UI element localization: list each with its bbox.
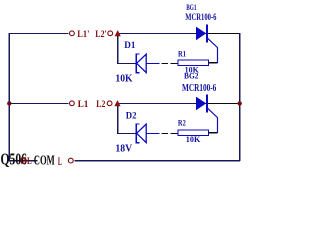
resistor R2 bbox=[178, 130, 209, 136]
terminal circle L2' bbox=[108, 31, 113, 36]
svg-text:MCR100-6: MCR100-6 bbox=[182, 82, 217, 94]
svg-text:L2: L2 bbox=[96, 98, 105, 109]
wire dashed segment D2 to R2 bbox=[162, 132, 179, 134]
wire dashed segment D1 to R1 bbox=[162, 62, 179, 64]
zener diode D2 bbox=[136, 124, 159, 143]
wire R1 to gate bbox=[209, 62, 218, 64]
svg-text:10K: 10K bbox=[115, 73, 132, 84]
arrow at L2' node bbox=[115, 30, 121, 36]
wire drop to D2 bbox=[118, 106, 136, 134]
svg-text:L: L bbox=[58, 156, 62, 169]
svg-text:18V: 18V bbox=[115, 143, 132, 154]
wire right vertical bus bbox=[239, 33, 241, 161]
svg-text:R2: R2 bbox=[178, 119, 186, 128]
wire mid bus left segment bbox=[9, 102, 68, 104]
wire mid bus right segment bbox=[117, 102, 240, 104]
wire bottom bus left segment bbox=[9, 160, 38, 162]
svg-text:R1: R1 bbox=[178, 49, 186, 59]
thyristor BG2 bbox=[196, 95, 240, 133]
wire drop to D1 bbox=[118, 36, 136, 64]
terminal circle COM bbox=[68, 158, 73, 163]
resistor R1 bbox=[178, 60, 209, 66]
svg-text:BG2: BG2 bbox=[184, 71, 199, 80]
svg-text:L2': L2' bbox=[95, 28, 106, 39]
svg-text:L: L bbox=[27, 156, 32, 166]
wire left vertical bus bbox=[8, 33, 10, 161]
wire bottom bus right segment bbox=[74, 160, 240, 162]
node junction right bbox=[238, 101, 242, 105]
wire R2 to gate bbox=[209, 132, 218, 134]
svg-text:L1': L1' bbox=[77, 29, 89, 39]
node junction left bbox=[7, 101, 11, 105]
svg-text:L1: L1 bbox=[78, 100, 89, 110]
zener diode D1 bbox=[136, 54, 159, 73]
svg-text:D2: D2 bbox=[126, 111, 137, 121]
terminal circle L2 bbox=[107, 101, 112, 106]
wire top bus left segment bbox=[9, 32, 68, 34]
svg-text:COM: COM bbox=[34, 154, 55, 168]
wire top bus right segment bbox=[117, 32, 240, 34]
terminal circle L1' bbox=[70, 31, 75, 36]
svg-text:MCR100-6: MCR100-6 bbox=[185, 12, 216, 23]
svg-text:Ø: Ø bbox=[20, 157, 27, 168]
terminal circle L1 bbox=[70, 101, 75, 106]
svg-text:10K: 10K bbox=[186, 134, 201, 144]
svg-text:D1: D1 bbox=[124, 41, 136, 51]
arrow at L2 node bbox=[114, 100, 120, 106]
thyristor BG1 bbox=[196, 25, 240, 63]
